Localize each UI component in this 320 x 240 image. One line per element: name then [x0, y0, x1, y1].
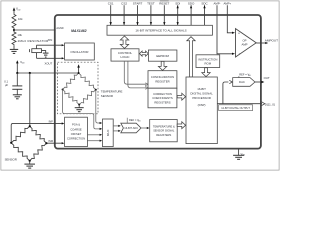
- svg-text:μF: μF: [5, 83, 9, 87]
- block: EEPROM: [148, 50, 177, 61]
- hollow arrow: registers to DSP: [177, 122, 185, 129]
- block: INSTRUCTION ROM: [196, 55, 220, 68]
- svg-text:MUX: MUX: [106, 129, 110, 136]
- svg-text:16-BIT: 16-BIT: [197, 87, 206, 91]
- pin TEST: [147, 1, 155, 25]
- svg-text:COARSE: COARSE: [70, 127, 82, 131]
- resistor R1 10k: [12, 13, 23, 29]
- label REF = VDD (DAC): [239, 72, 252, 77]
- pin AMP-: [214, 1, 236, 55]
- svg-text:12-BIT DIGITAL OUTPUT: 12-BIT DIGITAL OUTPUT: [221, 107, 250, 110]
- svg-text:OUT: OUT: [264, 76, 270, 80]
- pin RESET: [159, 1, 169, 25]
- svg-text:SDO: SDO: [188, 1, 195, 5]
- wire: sensor bridge to PGA input INM: [46, 142, 64, 144]
- hollow arrow: instruction ROM to DSP: [202, 68, 210, 77]
- svg-text:LOGIC: LOGIC: [121, 55, 130, 59]
- wire: MUX to ADC (2 lines): [113, 125, 121, 132]
- wire: riser to sensor bridge: [29, 73, 31, 126]
- svg-text:OFFSET: OFFSET: [71, 132, 82, 136]
- wire: bridge left node to MUX input 2: [63, 90, 103, 131]
- svg-text:DIGITAL SIGNAL: DIGITAL SIGNAL: [190, 92, 213, 96]
- block: 16-BIT INTERFACE TO ALL SIGNALS: [107, 25, 212, 35]
- svg-text:RESET: RESET: [159, 1, 169, 5]
- resonator Y1 2MHz: [30, 45, 46, 58]
- pin SDC: [201, 1, 208, 25]
- svg-text:SENSOR SIGNAL: SENSOR SIGNAL: [153, 129, 175, 133]
- power VDD (mid-left): [16, 60, 25, 73]
- svg-text:SDI: SDI: [175, 1, 180, 5]
- svg-text:SENSOR: SENSOR: [5, 158, 17, 162]
- op-amp U2: [236, 29, 257, 57]
- DAC: [233, 78, 255, 87]
- pin CS2: [121, 1, 127, 25]
- svg-text:AMP: AMP: [241, 42, 247, 46]
- node: bridge top: [78, 72, 80, 74]
- svg-text:+: +: [238, 32, 240, 36]
- node: resistor divider junction: [13, 29, 15, 31]
- svg-text:START: START: [133, 1, 143, 5]
- node: sensor bridge left: [10, 142, 12, 144]
- ground VSS: [233, 155, 244, 159]
- svg-text:AMP+: AMP+: [223, 1, 231, 5]
- node: bridge bottom: [78, 104, 80, 106]
- hollow arrow: DSP to interface: [187, 37, 195, 77]
- IC U1 MAX1462 chip outline: [55, 15, 261, 149]
- node: sensor bridge right: [45, 142, 47, 144]
- svg-text:CORRECTION: CORRECTION: [67, 137, 85, 141]
- ground C1: [13, 95, 22, 99]
- wire op-amp output to AMPOUT: [256, 38, 278, 44]
- svg-text:SENSOR: SENSOR: [101, 94, 113, 98]
- svg-text:INP: INP: [49, 119, 54, 123]
- pin SDO: [188, 1, 195, 25]
- hollow arrow: interface to control logic (bidirectional): [120, 36, 128, 48]
- wire: DSP 12-bit output bus: [217, 102, 275, 107]
- svg-text:AMPOUT: AMPOUT: [265, 38, 278, 42]
- svg-text:TEST: TEST: [147, 1, 155, 5]
- block: CONTROL LOGIC: [111, 49, 139, 61]
- block: OSCILLATOR: [65, 43, 95, 60]
- dashed box: temperature sensor: [58, 62, 99, 114]
- svg-text:CS2: CS2: [121, 1, 127, 5]
- hollow arrow: EEPROM to configuration register: [158, 61, 166, 70]
- svg-text:REGISTERS: REGISTERS: [154, 101, 170, 105]
- node: bridge left: [62, 89, 64, 91]
- wire: sensor bridge bottom to ground: [29, 161, 31, 164]
- wire: bus to DAC: [223, 80, 232, 103]
- wire XIN: [37, 38, 65, 46]
- capacitor C1 0.1uF: [4, 73, 22, 95]
- svg-text:TEMPERATURE: TEMPERATURE: [101, 89, 123, 93]
- svg-text:16-BIT INTERFACE TO ALL SIGNAL: 16-BIT INTERFACE TO ALL SIGNALS: [135, 29, 186, 33]
- svg-text:16-BIT ADC: 16-BIT ADC: [124, 126, 138, 130]
- wire: VDD excitation into bridge top node: [17, 72, 78, 74]
- pin VSS with ground: [239, 149, 246, 157]
- node: sensor bridge bottom: [29, 160, 31, 162]
- svg-text:AGND: AGND: [56, 27, 63, 30]
- svg-text:PGA &: PGA &: [72, 123, 80, 127]
- node: VDD junction to sensor bridge riser: [29, 72, 31, 74]
- svg-text:D[11..0]: D[11..0]: [265, 102, 275, 106]
- block: MUX: [103, 119, 114, 147]
- block: TEMPERATURE & SENSOR SIGNAL REGISTERS: [150, 120, 178, 142]
- ADC: 16-BIT ADC: [121, 123, 141, 133]
- ground sensor bridge: [24, 164, 35, 168]
- resistor R2 10k: [12, 31, 23, 46]
- block: CORRECTION COEFFICIENTS REGISTERS: [148, 88, 177, 108]
- svg-text:10k: 10k: [17, 33, 22, 37]
- svg-text:AMP-: AMP-: [214, 1, 221, 5]
- wire: bridge bottom to ground: [78, 105, 80, 108]
- block: PGA & COARSE OFFSET CORRECTION: [65, 117, 88, 146]
- svg-text:-: -: [239, 51, 240, 55]
- svg-text:DAC: DAC: [239, 80, 245, 84]
- ground R2: [10, 49, 18, 53]
- svg-text:CS1: CS1: [108, 1, 114, 5]
- block: 16-BIT DIGITAL SIGNAL PROCESSOR (DSP): [186, 77, 217, 144]
- temperature-sensor bridge resistors: [63, 73, 96, 105]
- wire: control logic to correction coefficients registers: [128, 61, 148, 89]
- label REF = VDD (ADC): [127, 118, 141, 123]
- wire: R2 to ground: [13, 46, 15, 49]
- svg-text:10k: 10k: [18, 17, 23, 21]
- wire XOUT: [37, 57, 65, 65]
- wire: bridge arrow up: [77, 64, 80, 73]
- svg-text:0.1: 0.1: [4, 79, 8, 83]
- sensor bridge resistors: [11, 126, 46, 161]
- svg-text:2MHz RESONATOR: 2MHz RESONATOR: [18, 39, 49, 43]
- block: CONFIGURATION REGISTER: [148, 71, 177, 89]
- node: sensor bridge top: [29, 125, 31, 127]
- wire: control logic to configuration register: [124, 61, 148, 86]
- svg-text:OSCILLATOR: OSCILLATOR: [70, 50, 88, 54]
- power VDD (top-left): [13, 7, 21, 14]
- svg-text:CONFIGURATION: CONFIGURATION: [151, 75, 174, 79]
- hollow arrow: control logic to EEPROM (bidirectional): [140, 51, 149, 56]
- wire: ADC to temperature/sensor registers: [141, 127, 149, 129]
- wire: PGA output 1 to MUX: [87, 134, 102, 136]
- svg-text:MAX1462: MAX1462: [71, 29, 87, 33]
- svg-text:REGISTERS: REGISTERS: [156, 133, 171, 137]
- ground temp bridge: [75, 108, 84, 112]
- label box: 12-BIT DIGITAL OUTPUT: [219, 105, 253, 111]
- label TEMPERATURE SENSOR: [101, 89, 123, 97]
- wire: sensor bridge to PGA input INP: [11, 122, 64, 142]
- svg-text:(DSP): (DSP): [198, 103, 206, 107]
- svg-text:XIN: XIN: [48, 38, 53, 42]
- wire: junction to AGND pin: [14, 27, 64, 30]
- svg-text:ROM: ROM: [205, 62, 212, 66]
- wire: DAC to OUT pin: [255, 76, 270, 83]
- pin START: [133, 1, 143, 25]
- svg-text:XOUT: XOUT: [45, 62, 53, 66]
- pin AMP+: [223, 1, 235, 34]
- node: VDD junction at capacitor: [16, 72, 18, 74]
- wire: bridge right node to MUX input 1: [96, 90, 102, 124]
- svg-text:EEPROM: EEPROM: [156, 54, 169, 58]
- wire: PGA output 2 to MUX: [87, 140, 102, 142]
- svg-text:PROCESSOR: PROCESSOR: [192, 96, 210, 100]
- pin CS1: [108, 1, 114, 25]
- svg-text:SDC: SDC: [201, 1, 208, 5]
- ground resonator: [43, 53, 49, 57]
- svg-text:INM: INM: [48, 139, 53, 143]
- node: bridge right: [95, 89, 97, 91]
- hollow arrow: correction coefficients registers to DSP: [177, 93, 185, 100]
- svg-text:REGISTER: REGISTER: [155, 80, 169, 84]
- pin SDI: [175, 1, 180, 25]
- svg-text:TEMPERATURE &: TEMPERATURE &: [153, 124, 175, 128]
